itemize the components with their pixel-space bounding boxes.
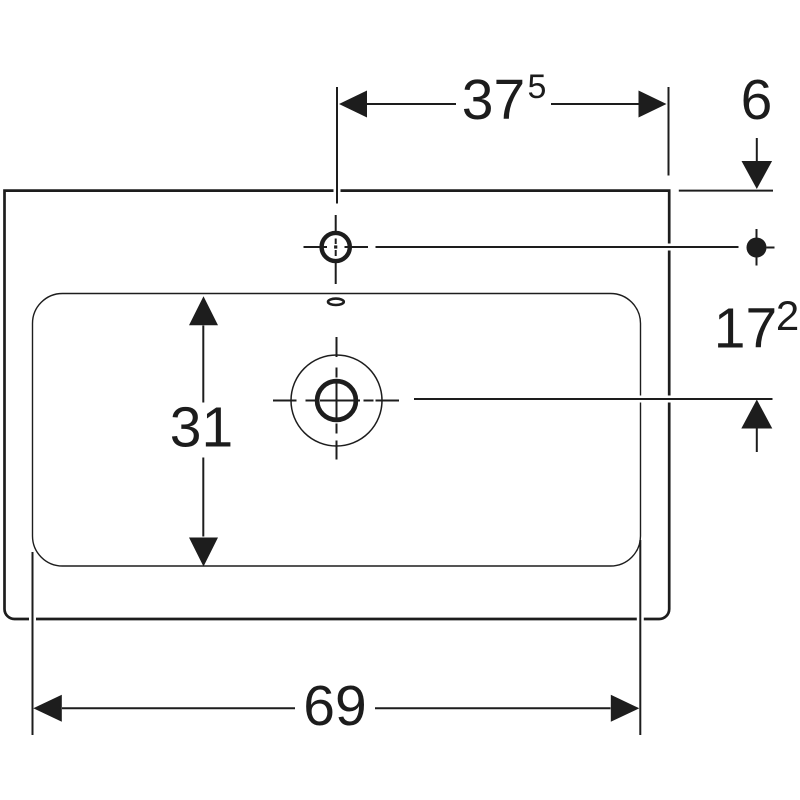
svg-text:37: 37	[462, 68, 525, 132]
svg-text:69: 69	[303, 674, 366, 738]
svg-text:2: 2	[776, 292, 799, 339]
svg-text:6: 6	[741, 68, 773, 132]
svg-text:5: 5	[528, 68, 547, 106]
svg-text:17: 17	[714, 297, 777, 361]
svg-text:31: 31	[170, 396, 233, 460]
